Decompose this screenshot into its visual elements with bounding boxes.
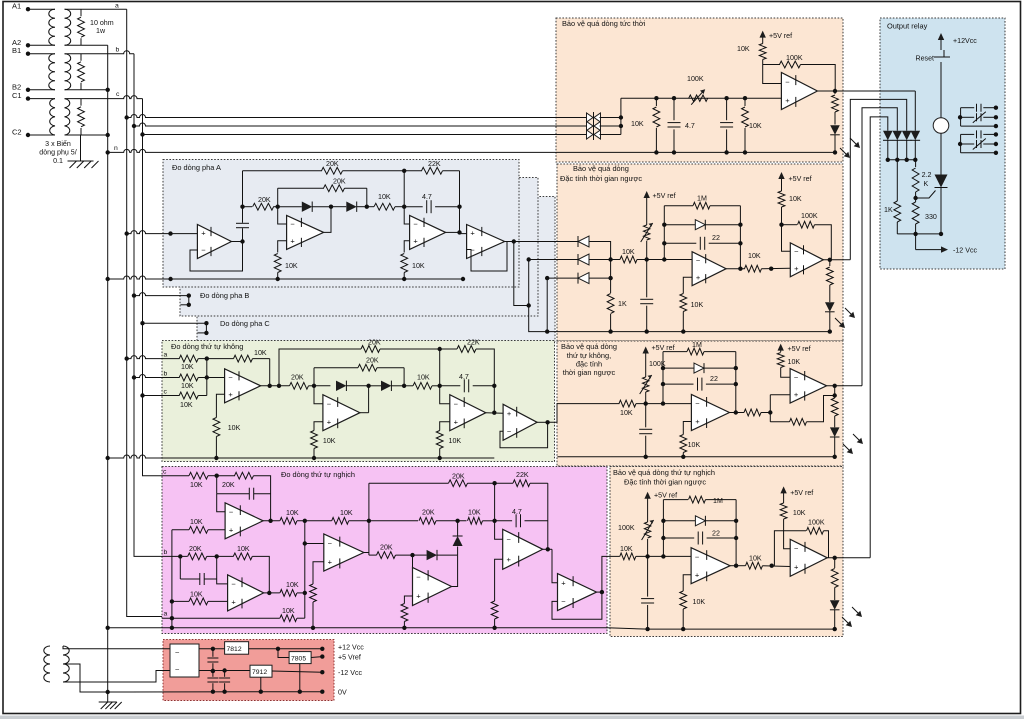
node block4 feedback	[661, 554, 665, 558]
variable resistor block2	[641, 223, 653, 260]
svg-text:20K: 20K	[380, 544, 393, 552]
svg-text:+5V ref: +5V ref	[788, 345, 811, 353]
terminal A2	[12, 38, 30, 48]
wire block1 out to relay	[914, 91, 916, 127]
magenta U2 inverting	[217, 556, 228, 584]
wire c from CT C	[65, 96, 143, 99]
PSU center tap	[65, 664, 110, 694]
+12 rail out	[249, 647, 325, 651]
capacitor magenta c	[217, 476, 271, 500]
resistor 10K block2 series	[611, 248, 647, 263]
svg-text:10K: 10K	[181, 363, 194, 371]
magenta summing vertical	[303, 521, 324, 618]
label a	[115, 3, 119, 10]
resistor 10K green feedback	[207, 349, 270, 362]
svg-text:Đo dòng thứ tự nghịch: Đo dòng thứ tự nghịch	[281, 470, 355, 479]
burden resistor C	[78, 99, 85, 135]
green U2 noninverting	[314, 422, 323, 431]
op-amp U3 phase A	[410, 215, 446, 249]
resistor 20K magenta b	[162, 545, 217, 560]
terminal C1	[12, 91, 30, 101]
relay bottom rail	[897, 232, 943, 236]
svg-text:+: +	[228, 390, 233, 399]
svg-text:10K: 10K	[793, 509, 806, 517]
svg-text:+: +	[695, 417, 700, 426]
svg-text:10K: 10K	[620, 409, 633, 417]
svg-text:Bảo vệ quá dòng: Bảo vệ quá dòng	[573, 164, 629, 173]
op-amp magenta U1	[225, 503, 263, 539]
magenta U4 output riser	[452, 555, 458, 586]
resistor 10K magenta U5 ref	[491, 601, 498, 630]
magenta U1 inverting	[217, 494, 225, 512]
green U1 output	[261, 384, 290, 388]
10K noninverting block3	[680, 422, 701, 459]
svg-text:+5V ref: +5V ref	[653, 192, 676, 200]
-12 raw rail	[199, 668, 250, 673]
svg-text:22K: 22K	[516, 471, 529, 479]
node D magenta	[492, 483, 496, 523]
svg-text:20K: 20K	[258, 196, 271, 204]
block2 integrator output	[726, 267, 745, 271]
svg-text:20K: 20K	[452, 473, 465, 481]
feedback right riser block4	[734, 500, 738, 566]
svg-text:10K: 10K	[631, 120, 644, 128]
svg-text:C1: C1	[12, 91, 22, 100]
node U3 inverting input	[402, 205, 410, 225]
block Do dong pha B (collapsed)	[180, 178, 538, 317]
resistor 10K green series2	[404, 374, 440, 390]
svg-text:a: a	[164, 352, 168, 359]
svg-text:−: −	[454, 399, 459, 408]
resistor hysteresis block3	[770, 396, 834, 426]
svg-text:c: c	[116, 91, 120, 98]
ref +5V block4 comparator	[780, 486, 813, 503]
resistor 10K magenta U3 ref	[310, 584, 317, 630]
wire magenta ground rail	[106, 626, 648, 630]
svg-text:4.7: 4.7	[512, 508, 522, 516]
resistor 10K green U3 ref	[436, 431, 461, 461]
wire green ground rail	[106, 455, 495, 460]
resistor 10K green c	[179, 392, 207, 409]
+5 Vref out	[311, 654, 361, 662]
relay contact set 2	[958, 130, 998, 155]
green 20K feedback 2	[314, 357, 404, 372]
svg-text:−: −	[695, 399, 700, 408]
block3 comparator input loop	[768, 395, 790, 422]
diac common vertical	[600, 98, 624, 134]
svg-text:b: b	[116, 47, 120, 54]
resistor block2 indicator	[826, 260, 833, 302]
magenta U5 inverting	[495, 521, 503, 540]
svg-text:Đặc tính thời gian ngược: Đặc tính thời gian ngược	[560, 174, 642, 183]
CT A secondary winding	[65, 9, 71, 45]
op-amp integrator block2	[692, 252, 726, 286]
bottom grey strip	[0, 716, 1024, 719]
svg-text:330: 330	[925, 213, 937, 221]
svg-text:thời gian ngược: thời gian ngược	[563, 368, 616, 377]
op-amp magenta U4 rectifier	[413, 568, 452, 606]
resistor 10K block4 output	[746, 555, 791, 570]
svg-text:10K: 10K	[620, 545, 633, 553]
op-amp integrator block4	[691, 548, 730, 584]
svg-text:10K: 10K	[190, 591, 203, 599]
resistor 10K magenta to D	[468, 509, 495, 525]
title Bao ve qua dong thu tu khong (4 lines)	[561, 342, 617, 377]
svg-text:+: +	[328, 557, 333, 566]
svg-text:Reset: Reset	[915, 55, 934, 63]
op-amp magenta U5	[503, 529, 543, 569]
op-amp magenta U3 summing	[324, 534, 364, 571]
diode D2 phase A	[331, 202, 367, 212]
svg-text:20K: 20K	[333, 178, 346, 186]
-12 rail out	[272, 669, 363, 677]
svg-text:c: c	[164, 389, 168, 396]
filter capacitor 2	[207, 671, 218, 694]
svg-text:-12 Vcc: -12 Vcc	[338, 669, 363, 677]
svg-text:−: −	[561, 597, 566, 606]
svg-text:10K: 10K	[417, 374, 430, 382]
svg-text:−: −	[416, 573, 421, 582]
bus 0V vertical	[107, 45, 109, 692]
svg-text:22: 22	[712, 234, 720, 242]
node magenta b	[215, 554, 219, 558]
label c magenta	[163, 469, 167, 476]
top rail 20K 22K phase A	[243, 160, 460, 207]
svg-text:2.2: 2.2	[922, 171, 932, 179]
capacitor 22 block2	[664, 234, 740, 250]
svg-text:n: n	[114, 145, 118, 152]
resistor 10K green U2 ref	[311, 431, 336, 461]
riser to diode row 2	[527, 257, 578, 305]
LED block1 indicator	[830, 125, 840, 154]
LED arrows block2	[835, 308, 855, 328]
stub input phase B	[132, 293, 191, 298]
resistor 10K magenta sum2	[332, 509, 369, 524]
OR diode block1 input	[911, 131, 921, 162]
wire CT C bottom to common	[65, 133, 110, 137]
feedback left riser block2	[662, 206, 666, 260]
svg-text:−: −	[794, 247, 799, 256]
bridge rectifier	[170, 644, 199, 677]
svg-text:10K: 10K	[190, 518, 203, 526]
svg-text:-12 Vcc: -12 Vcc	[953, 247, 978, 255]
svg-text:10K: 10K	[749, 122, 762, 130]
block2 out to relay	[850, 99, 906, 259]
capacitor 22 block3	[663, 375, 736, 391]
diode feedback block2	[664, 220, 740, 230]
diode feedback block4	[663, 516, 736, 526]
block Bao ve qua dong dac tinh nguoc	[557, 164, 843, 341]
PSU transformer primary	[44, 646, 50, 682]
green rectifier input node	[312, 384, 316, 388]
svg-text:+: +	[201, 229, 206, 238]
diac c	[587, 129, 601, 140]
svg-text:−: −	[290, 220, 295, 229]
resistor 100K feedback block1	[763, 54, 836, 91]
U2 inverting wire	[278, 207, 287, 224]
svg-text:−: −	[695, 552, 700, 561]
burden resistor A	[78, 9, 85, 45]
diode common vertical block2	[589, 242, 613, 294]
feedback left riser block4	[661, 500, 665, 557]
svg-text:−: −	[327, 399, 332, 408]
green node after D2	[402, 368, 406, 388]
svg-text:10K: 10K	[286, 509, 299, 517]
svg-text:−: −	[794, 373, 799, 382]
diode tops wires	[888, 127, 916, 131]
resistor 20K feedback 2	[278, 178, 367, 192]
block Do dong thu tu khong (green)	[162, 341, 555, 462]
svg-text:−: −	[794, 544, 799, 553]
node B magenta	[367, 483, 371, 555]
magenta U3 output	[364, 552, 369, 554]
CT C primary winding	[28, 99, 55, 135]
svg-text:4.7: 4.7	[422, 193, 432, 201]
resistor 10K U2 to rail	[274, 254, 298, 282]
ref +5V block1	[760, 31, 793, 44]
bus a vertical	[127, 9, 162, 616]
magenta U6 input	[552, 549, 558, 583]
resistor block4 indicator	[831, 558, 838, 600]
svg-text:−: −	[696, 256, 701, 265]
bus b vertical	[134, 54, 162, 557]
block1 output wire	[817, 89, 915, 93]
node after D2	[365, 188, 369, 209]
svg-text:100K: 100K	[687, 75, 704, 83]
stub rail phase B	[181, 296, 192, 307]
capacitor block3 shunt	[639, 404, 652, 459]
svg-text:22K: 22K	[428, 160, 441, 168]
svg-text:+5V ref: +5V ref	[769, 32, 792, 40]
resistor 10K magenta sum1	[280, 509, 332, 524]
Reset switch	[915, 50, 950, 118]
svg-text:10K: 10K	[181, 382, 194, 390]
svg-text:+5V ref: +5V ref	[790, 489, 813, 497]
resistor 10K block1 second	[742, 98, 762, 154]
ref +5V block2 comparator	[778, 172, 811, 191]
svg-text:7812: 7812	[227, 646, 242, 653]
svg-text:10K: 10K	[340, 509, 353, 517]
svg-text:1w: 1w	[96, 27, 106, 35]
LED block3 indicator	[830, 427, 840, 459]
resistor 10K magenta U4 ref	[401, 604, 408, 631]
svg-text:Bảo vệ quá dòng: Bảo vệ quá dòng	[561, 342, 617, 351]
title Bao ve qua dong / Dac tinh thoi gian nguoc	[560, 164, 642, 183]
title Output relay	[887, 22, 928, 31]
variable resistor 100K block1	[687, 75, 708, 105]
svg-text:+: +	[327, 417, 332, 426]
svg-text:10K: 10K	[449, 437, 462, 445]
svg-text:1M: 1M	[692, 341, 702, 349]
U4 input wire	[446, 230, 467, 234]
svg-text:−: −	[229, 507, 234, 516]
block3 out to relay	[862, 108, 897, 386]
svg-text:20K: 20K	[366, 357, 379, 365]
svg-text:20K: 20K	[189, 545, 202, 553]
coupling capacitor phase A	[236, 207, 249, 242]
10K noninverting block4	[680, 575, 706, 632]
svg-text:4.7: 4.7	[685, 122, 695, 130]
wire a from CT A	[65, 8, 127, 10]
svg-text:10K: 10K	[737, 45, 750, 53]
node phase A rectifier input	[276, 205, 280, 209]
wire input phase A	[125, 231, 198, 236]
resistor 22K green top	[457, 339, 494, 386]
svg-text:4.7: 4.7	[459, 373, 469, 381]
capacitor block4 shunt	[641, 556, 654, 631]
svg-text:B1: B1	[12, 46, 21, 55]
svg-text:+5V ref: +5V ref	[654, 492, 677, 500]
wire b from CT B	[65, 51, 135, 54]
svg-text:10K: 10K	[693, 598, 706, 606]
svg-text:A1: A1	[12, 2, 21, 11]
green feedback riser	[269, 359, 271, 386]
ref +5V block3 comparator	[778, 344, 811, 353]
svg-text:+: +	[794, 563, 799, 572]
svg-text:+: +	[507, 555, 512, 564]
resistor 20K magenta c feedback	[217, 472, 271, 521]
svg-text:10K: 10K	[237, 545, 250, 553]
SCR thyristor	[935, 175, 948, 234]
label 3 x Bien dong phu 5/ 0.1	[39, 139, 77, 165]
svg-text:10K: 10K	[468, 509, 481, 517]
PSU transformer secondary	[63, 646, 69, 682]
op-amp magenta U6 buffer	[558, 574, 597, 611]
diode OR c block2	[578, 273, 589, 284]
resistor 10K block4 comparator ref	[780, 503, 806, 549]
U3 noninverting wire	[404, 241, 409, 253]
bus row b to protection	[132, 123, 586, 128]
op-amp green U1	[225, 369, 261, 403]
svg-text:K: K	[924, 180, 929, 188]
resistor 10K magenta c	[162, 472, 217, 489]
resistor 20K green series	[290, 374, 315, 390]
capacitor magenta b	[180, 556, 216, 585]
capacitor 22 block4	[663, 530, 736, 545]
+12Vcc supply arrow	[938, 33, 978, 50]
svg-text:10K: 10K	[788, 358, 801, 366]
svg-text:+: +	[561, 579, 566, 588]
resistor 20K phase A input	[240, 196, 277, 210]
svg-text:+: +	[696, 273, 701, 282]
title Do dong thu tu khong	[171, 342, 243, 351]
green output wire	[548, 404, 620, 423]
node magenta rect	[410, 553, 414, 577]
block4 integrator output	[730, 564, 745, 568]
LED block2 indicator	[825, 302, 835, 334]
svg-text:+: +	[785, 96, 790, 105]
PSU secondary bottom wire	[63, 671, 170, 683]
svg-text:~: ~	[175, 665, 180, 674]
svg-text:+: +	[794, 264, 799, 273]
svg-text:10K: 10K	[688, 441, 701, 449]
green summing node vertical	[205, 356, 209, 395]
op-amp comparator block4	[790, 539, 827, 576]
svg-text:+: +	[454, 417, 459, 426]
resistor 2.2K relay	[912, 168, 931, 198]
wire ground rail phase A	[106, 276, 466, 281]
label 10 ohm 1w	[90, 19, 114, 35]
svg-text:−: −	[785, 77, 790, 86]
LED block4 indicator	[830, 600, 840, 631]
PSU secondary top wire	[63, 646, 170, 649]
wire CT B bottom to common	[65, 88, 110, 92]
svg-text:10K: 10K	[228, 424, 241, 432]
block Output relay	[880, 18, 1005, 269]
svg-text:c: c	[163, 469, 167, 476]
relay contact set 1	[958, 104, 998, 129]
label a magenta	[164, 611, 168, 618]
magenta U4 noninverting	[404, 596, 412, 604]
resistor 20K magenta rect	[369, 544, 413, 559]
svg-text:+: +	[290, 237, 295, 246]
svg-text:+: +	[470, 229, 475, 238]
10K noninverting block2	[680, 277, 704, 334]
ref +5V block3	[643, 344, 675, 377]
regulator 7805	[278, 649, 311, 664]
svg-text:−: −	[228, 373, 233, 382]
capacitor 4.7 phase A	[404, 193, 459, 213]
svg-text:−: −	[413, 220, 418, 229]
label n	[114, 145, 118, 152]
block Do dong thu tu nghich (magenta)	[162, 467, 607, 634]
diode OR b block2	[578, 254, 589, 265]
ref +5V block4	[644, 492, 677, 523]
svg-text:20K: 20K	[291, 374, 304, 382]
relay coil to SCR wire	[940, 133, 942, 176]
svg-text:10K: 10K	[622, 248, 635, 256]
svg-text:−: −	[231, 580, 236, 589]
resistor 10K magenta U1 plus	[172, 518, 208, 533]
label c	[116, 91, 120, 98]
green U2 output riser	[360, 412, 369, 414]
diac b	[587, 121, 601, 132]
7912 ground stub	[259, 677, 263, 694]
resistor 10K magenta b series	[217, 545, 270, 593]
resistor 10K magenta sum3	[280, 581, 305, 596]
LED arrows block4	[842, 607, 862, 627]
block Bao ve qua dong thu tu khong	[557, 341, 843, 466]
block4 positive feedback riser	[774, 531, 806, 566]
magenta U1 noninverting	[208, 529, 225, 531]
terminal A1	[12, 2, 30, 12]
svg-text:Do dòng pha C: Do dòng pha C	[220, 319, 270, 328]
svg-text:B2: B2	[12, 82, 21, 91]
svg-text:−: −	[328, 539, 333, 548]
green mid node	[366, 384, 370, 413]
magenta U6 feedback	[552, 592, 602, 619]
ref +5V block2	[644, 191, 676, 225]
block4 output wire	[827, 556, 870, 560]
svg-text:1K: 1K	[884, 206, 893, 214]
green U1 noninverting	[216, 394, 224, 417]
svg-text:10K: 10K	[412, 262, 425, 270]
block Bao ve qua dong thu tu nghich	[610, 467, 843, 637]
variable resistor block4	[642, 520, 654, 556]
svg-text:+12Vcc: +12Vcc	[953, 37, 977, 45]
resistor 100K block4 feedback	[807, 519, 829, 558]
op-amp integrator block3	[691, 395, 729, 431]
resistor 1K relay	[884, 160, 901, 234]
magenta output wire	[597, 556, 620, 594]
row B-D magenta	[369, 509, 467, 525]
svg-text:+5V ref: +5V ref	[652, 344, 675, 352]
bus row c to protection	[140, 132, 586, 136]
bus row a to protection	[125, 115, 587, 120]
CT ground	[68, 135, 99, 168]
svg-text:Bảo vệ quá dòng tức thời: Bảo vệ quá dòng tức thời	[562, 19, 646, 28]
svg-text:10K: 10K	[286, 581, 299, 589]
